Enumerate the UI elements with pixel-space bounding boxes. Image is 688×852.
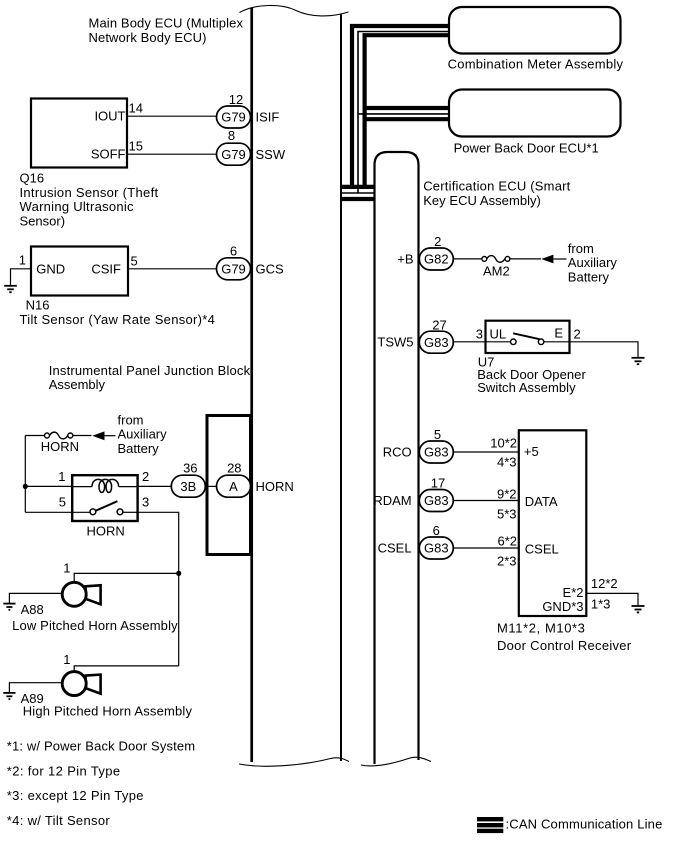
wire U7 to ground	[570, 342, 639, 357]
svg-text:28: 28	[227, 461, 241, 476]
node junction dot horn feed	[176, 571, 181, 576]
ground A88	[3, 604, 15, 610]
svg-text:E*2: E*2	[563, 585, 584, 600]
svg-text:2: 2	[434, 234, 441, 249]
component N16 Tilt Sensor box	[31, 247, 128, 296]
component Q16 Intrusion Sensor box	[31, 99, 127, 168]
wire relay pin 2 to 3B	[138, 485, 172, 487]
wire CAN link thin line	[342, 192, 375, 194]
wire CAN branch to Power Back Door ECU (lower thick)	[365, 117, 449, 121]
wire AM2 to arrow	[510, 258, 541, 260]
wire GND to ground	[11, 269, 32, 285]
svg-text:G83: G83	[424, 445, 449, 460]
svg-text:17: 17	[431, 476, 445, 491]
wire IOUT to G79	[127, 115, 217, 117]
svg-text:1*3: 1*3	[591, 596, 611, 611]
svg-text:N16: N16	[26, 298, 50, 313]
svg-text:Intrusion Sensor (Theft: Intrusion Sensor (Theft	[20, 185, 159, 200]
svg-text:12*2: 12*2	[591, 576, 618, 591]
svg-text:G83: G83	[424, 493, 449, 508]
wire CAN bus to Combination Meter (inner thick)	[365, 35, 449, 189]
svg-text:6: 6	[230, 243, 237, 258]
svg-text:Network Body ECU): Network Body ECU)	[89, 30, 207, 45]
svg-text:G79: G79	[221, 262, 246, 277]
svg-text:4*3: 4*3	[497, 454, 517, 469]
wire RCO to receiver	[453, 451, 519, 453]
svg-text:GCS: GCS	[256, 261, 285, 276]
wire CAN link Main Body ECU to Certification ECU (lower thick)	[342, 197, 375, 201]
ground A89	[3, 693, 15, 699]
Combination Meter Assembly box	[449, 7, 621, 54]
wire CAN branch to Power Back Door ECU (upper thick)	[365, 106, 449, 110]
wire receiver to ground	[586, 593, 638, 605]
wire CAN bus to Combination Meter (outer thick)	[352, 26, 449, 189]
svg-text:Battery: Battery	[118, 441, 160, 456]
svg-text:G79: G79	[221, 147, 246, 162]
svg-text:G82: G82	[424, 252, 449, 267]
connector G79 (GCS)	[217, 258, 251, 280]
svg-text:Assembly: Assembly	[49, 377, 106, 392]
label M11*2, M10*3 Door Control Receiver	[497, 620, 632, 653]
svg-text:Q16: Q16	[20, 171, 45, 186]
svg-text:14: 14	[129, 101, 143, 116]
svg-text:5: 5	[131, 254, 138, 269]
svg-text:Door Control Receiver: Door Control Receiver	[497, 638, 632, 653]
svg-text:*1: w/ Power Back Door System: *1: w/ Power Back Door System	[7, 738, 195, 753]
svg-text:GND*3: GND*3	[542, 599, 583, 614]
wire G83 to U7	[453, 341, 485, 343]
wire A89 to ground	[9, 683, 62, 693]
svg-text:5: 5	[59, 495, 66, 510]
wire CSIF to G79	[128, 268, 217, 270]
ECU body Main Body ECU (torn-edge tall box)	[239, 5, 349, 766]
connector A	[217, 475, 251, 497]
connector G79 (ISIF)	[217, 106, 251, 128]
svg-text:Low Pitched Horn Assembly: Low Pitched Horn Assembly	[12, 618, 178, 633]
svg-text:GND: GND	[36, 262, 65, 277]
label U7	[477, 354, 586, 395]
svg-text:2: 2	[574, 327, 581, 342]
svg-text:HORN: HORN	[41, 439, 79, 454]
svg-text:Tilt Sensor (Yaw Rate Sensor)*: Tilt Sensor (Yaw Rate Sensor)*4	[20, 312, 215, 327]
svg-text:+B: +B	[397, 252, 413, 267]
connector G79 (SSW)	[217, 143, 251, 165]
label Instrumental Panel Junction Block	[49, 363, 251, 392]
svg-text:ISIF: ISIF	[256, 110, 280, 125]
connector G82 (+B)	[419, 248, 453, 270]
wire A88 to ground	[9, 593, 62, 603]
node junction dot at relay pin 1	[23, 484, 28, 489]
wire CAN bus center thin line	[358, 32, 449, 194]
svg-text:Certification ECU (Smart: Certification ECU (Smart	[423, 178, 570, 193]
svg-text:Instrumental Panel Junction Bl: Instrumental Panel Junction Block	[49, 363, 251, 378]
svg-text:27: 27	[432, 318, 446, 333]
ECU body Certification ECU (rounded top, torn bottom)	[361, 152, 431, 766]
horn A88	[62, 582, 100, 606]
svg-text:CSEL: CSEL	[378, 541, 412, 556]
component Instrumental Panel Junction Block box	[207, 416, 251, 555]
connector 3B	[171, 475, 205, 497]
connector G83 (RDAM)	[419, 490, 453, 512]
svg-text:Main Body ECU (Multiplex: Main Body ECU (Multiplex	[89, 16, 244, 31]
wire fuse down to relay	[24, 436, 26, 513]
relay coil	[72, 479, 137, 492]
svg-text:from: from	[118, 412, 144, 427]
wire SOFF to G79	[127, 153, 217, 155]
wire to relay pin 1	[25, 485, 72, 487]
svg-text:6*2: 6*2	[497, 533, 517, 548]
wire 3B to A	[205, 485, 216, 487]
svg-text:1: 1	[63, 561, 70, 576]
svg-text:DATA: DATA	[525, 494, 558, 509]
ground N16	[4, 286, 17, 292]
wire CAN link Main Body ECU to Certification ECU (upper thick)	[342, 185, 375, 189]
svg-text:HORN: HORN	[87, 524, 125, 539]
svg-text:High Pitched Horn Assembly: High Pitched Horn Assembly	[23, 704, 193, 719]
svg-text:3B: 3B	[180, 479, 196, 494]
wire CAN branch thin line	[358, 113, 449, 115]
relay HORN box	[72, 475, 137, 521]
wire from fuse to auxiliary battery feed	[25, 435, 44, 437]
label A89	[21, 691, 193, 719]
svg-text:5*3: 5*3	[497, 506, 517, 521]
wire junction down to A89	[178, 573, 180, 666]
horn A89	[62, 672, 100, 696]
svg-text:1: 1	[19, 253, 26, 268]
svg-text:SSW: SSW	[256, 147, 286, 162]
svg-text:TSW5: TSW5	[377, 335, 413, 350]
svg-text:Auxiliary: Auxiliary	[568, 255, 618, 270]
svg-text:Switch Assembly: Switch Assembly	[477, 380, 576, 395]
connector G83 (CSEL)	[419, 537, 453, 559]
svg-text:RCO: RCO	[383, 444, 412, 459]
svg-text:*2: for 12 Pin Type: *2: for 12 Pin Type	[7, 763, 120, 778]
arrow from Auxiliary Battery (left)	[92, 431, 104, 440]
Power Back Door ECU box	[449, 90, 621, 137]
svg-text:from: from	[568, 241, 594, 256]
arrow from Auxiliary Battery (right)	[541, 255, 553, 264]
svg-text:A88: A88	[21, 602, 44, 617]
svg-text:G83: G83	[424, 541, 449, 556]
svg-text:G79: G79	[221, 110, 246, 125]
svg-text:M11*2, M10*3: M11*2, M10*3	[497, 620, 585, 635]
svg-text:*4: w/ Tilt Sensor: *4: w/ Tilt Sensor	[7, 813, 111, 828]
svg-text:*3: except 12 Pin Type: *3: except 12 Pin Type	[7, 788, 144, 803]
svg-text:Sensor): Sensor)	[20, 213, 66, 228]
svg-text:Combination Meter Assembly: Combination Meter Assembly	[448, 57, 624, 72]
connector G83 (RCO)	[419, 441, 453, 463]
svg-text:G83: G83	[424, 335, 449, 350]
wire CSEL to receiver	[453, 547, 519, 549]
fuse AM2	[482, 256, 510, 263]
svg-text:+5: +5	[524, 444, 539, 459]
label from Auxiliary Battery (right)	[568, 241, 618, 285]
label from Auxiliary Battery (left)	[118, 412, 168, 456]
svg-text:Battery: Battery	[568, 269, 610, 284]
svg-text:10*2: 10*2	[490, 436, 517, 451]
svg-text:E: E	[554, 326, 563, 341]
svg-text:HORN: HORN	[256, 479, 294, 494]
svg-text::CAN Communication Line: :CAN Communication Line	[506, 817, 663, 832]
svg-text:Power Back Door ECU*1: Power Back Door ECU*1	[454, 141, 599, 156]
svg-text:6: 6	[433, 523, 440, 538]
wire to A89 pin 1	[74, 666, 179, 672]
svg-text:3: 3	[476, 327, 483, 342]
wire RDAM to receiver	[453, 500, 519, 502]
svg-text:8: 8	[228, 128, 235, 143]
wire relay pin 3 down	[138, 512, 179, 573]
svg-text:IOUT: IOUT	[94, 109, 125, 124]
label N16	[20, 298, 215, 328]
relay switch	[72, 501, 137, 515]
svg-text:36: 36	[183, 461, 197, 476]
svg-text:RDAM: RDAM	[373, 493, 411, 508]
svg-text:3: 3	[142, 495, 149, 510]
svg-text:Auxiliary: Auxiliary	[118, 427, 168, 442]
svg-text:AM2: AM2	[483, 263, 510, 278]
switch U7 contacts	[486, 333, 570, 344]
wire to relay pin 5	[25, 511, 72, 513]
svg-text:Warning Ultrasonic: Warning Ultrasonic	[20, 199, 135, 214]
switch U7 box	[486, 321, 570, 353]
svg-text:Key ECU Assembly): Key ECU Assembly)	[423, 193, 541, 208]
wire fuse to arrow	[73, 435, 92, 437]
svg-text:CSIF: CSIF	[91, 262, 121, 277]
svg-text:2: 2	[142, 469, 149, 484]
svg-text:5: 5	[434, 427, 441, 442]
fuse HORN	[45, 432, 73, 439]
legend CAN communication line symbol	[477, 817, 503, 833]
svg-text:SOFF: SOFF	[91, 147, 126, 162]
ECU label Main Body ECU	[89, 16, 244, 46]
svg-text:A: A	[229, 479, 238, 494]
svg-text:1: 1	[58, 469, 65, 484]
ECU label Certification ECU	[423, 178, 570, 208]
svg-text:12: 12	[229, 92, 243, 107]
wire G82 to AM2	[453, 258, 481, 260]
ground U7	[632, 358, 645, 364]
label A88	[12, 602, 178, 633]
svg-text:UL: UL	[490, 327, 507, 342]
ground Door Control Receiver	[632, 606, 645, 612]
label Q16	[20, 171, 159, 229]
component Door Control Receiver box	[519, 430, 587, 616]
wire to A88 pin 1	[74, 573, 179, 582]
connector G83 (TSW5)	[419, 331, 453, 353]
svg-text:CSEL: CSEL	[525, 541, 559, 556]
svg-text:1: 1	[63, 652, 70, 667]
svg-text:9*2: 9*2	[497, 487, 517, 502]
svg-text:2*3: 2*3	[497, 553, 517, 568]
svg-text:15: 15	[129, 139, 143, 154]
